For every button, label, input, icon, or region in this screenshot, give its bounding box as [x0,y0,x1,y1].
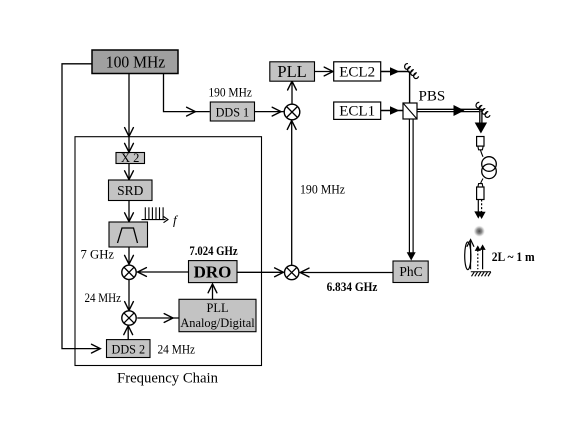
svg-text:190 MHz: 190 MHz [300,183,346,197]
svg-text:100 MHz: 100 MHz [106,52,166,71]
svg-text:ECL2: ECL2 [339,65,375,81]
svg-text:ECL1: ECL1 [339,104,375,120]
svg-text:f: f [173,213,179,228]
svg-text:7 GHz: 7 GHz [81,248,115,262]
svg-text:X 2: X 2 [121,151,139,165]
svg-text:PhC: PhC [399,264,422,279]
svg-text:7.024 GHz: 7.024 GHz [189,244,238,258]
svg-text:190 MHz: 190 MHz [208,86,252,100]
svg-text:6.834 GHz: 6.834 GHz [327,280,378,294]
svg-text:24 MHz: 24 MHz [158,342,196,356]
svg-text:DRO: DRO [194,263,232,282]
svg-text:Frequency Chain: Frequency Chain [117,370,218,387]
svg-text:SRD: SRD [117,183,144,198]
svg-text:2L ~ 1 m: 2L ~ 1 m [492,250,536,264]
svg-text:PLL: PLL [277,62,306,81]
svg-text:PLL: PLL [206,301,228,315]
svg-text:PBS: PBS [419,89,446,105]
svg-text:Analog/Digital: Analog/Digital [180,316,255,330]
svg-text:DDS 2: DDS 2 [112,342,146,356]
svg-text:24 MHz: 24 MHz [85,291,122,305]
svg-text:DDS 1: DDS 1 [216,105,250,119]
